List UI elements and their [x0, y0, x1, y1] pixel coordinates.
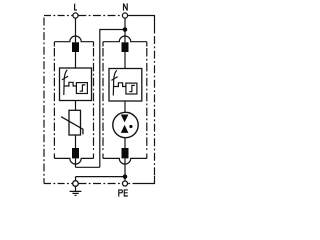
- switch lever tick N: [111, 77, 117, 81]
- wire varistor to bottom disconnector L: [75, 135, 77, 148]
- outer dash-dot enclosure bottom border segment between ground and PE: [78, 183, 122, 185]
- disconnector line L bottom with hop arc: [54, 158, 93, 164]
- junction dot PE bus: [123, 174, 128, 179]
- disconnector line L top with hop arc: [54, 36, 93, 42]
- label PE letter E: [124, 189, 128, 196]
- junction dot N top: [123, 27, 128, 32]
- wire varistor bus to riser: [76, 166, 100, 168]
- wire L terminal down: [75, 18, 77, 42]
- PE bus wire: [76, 176, 126, 178]
- switch box L: [60, 68, 92, 101]
- terminal circle ground: [73, 181, 79, 187]
- module box L left side (dash-dot): [53, 42, 55, 159]
- wire gas discharge tube to bottom disconnector N: [124, 137, 126, 148]
- wire L disconnector to switch box: [75, 52, 77, 68]
- gas discharge tube circle: [113, 112, 138, 137]
- wire riser up to N junction: [100, 30, 125, 168]
- module box L right side (dash-dot): [93, 42, 95, 159]
- gas discharge tube bottom electrode triangle: [121, 125, 129, 133]
- outer dash-dot enclosure left border: [43, 18, 45, 184]
- outer dash-dot enclosure bottom border segment left of ground: [44, 183, 73, 185]
- gas discharge tube top electrode triangle: [121, 115, 129, 123]
- terminal circle PE: [123, 181, 128, 186]
- switch lever N: [113, 70, 116, 95]
- indicator square N: [126, 83, 137, 94]
- label N: [123, 3, 128, 10]
- module box N left side (dash-dot): [102, 42, 104, 159]
- terminal circle L: [73, 13, 78, 18]
- wire N terminal down through junction: [124, 18, 126, 42]
- wire N bottom disconnector to PE junction: [124, 158, 126, 181]
- indicator step symbol L: [80, 85, 86, 91]
- switch lever tick L: [62, 76, 68, 80]
- wire N switch box to gas discharge tube: [124, 101, 126, 112]
- module box N right side (dash-dot): [146, 42, 148, 159]
- thermal disconnector solder rect N bottom: [122, 148, 129, 158]
- thermal disconnector solder rect L bottom: [72, 148, 79, 158]
- switch step link N: [114, 83, 126, 87]
- outer dash-dot enclosure bottom border segment right of PE: [128, 183, 139, 185]
- varistor diagonal with tail: [61, 117, 83, 135]
- switch step link L: [64, 82, 76, 86]
- disconnector line N top with hop arc: [103, 36, 147, 42]
- gas discharge tube gas dot: [129, 125, 132, 128]
- wire L bottom disconnector to bus: [75, 158, 77, 167]
- indicator square L: [76, 83, 87, 94]
- thermal disconnector solder rect L top: [72, 42, 79, 52]
- wire N disconnector to switch box: [124, 52, 126, 69]
- wire N terminal to right border (solid): [128, 16, 155, 34]
- indicator step symbol N: [129, 85, 135, 91]
- wire L switch box to varistor: [75, 101, 77, 111]
- outer enclosure bottom-right corner (solid): [139, 176, 155, 184]
- thermal disconnector solder rect N top: [122, 42, 129, 52]
- disconnector line N bottom with hop arc: [103, 158, 147, 164]
- ground symbol: [70, 186, 82, 195]
- outer dash-dot enclosure right border: [154, 36, 156, 176]
- varistor rectangle: [69, 110, 81, 135]
- label PE: [118, 189, 123, 196]
- outer dash-dot enclosure top border segment between L and N: [78, 15, 122, 17]
- terminal circle N: [122, 13, 127, 18]
- outer dash-dot enclosure top border segment left of L: [44, 15, 73, 17]
- switch box N: [109, 69, 142, 102]
- switch lever L: [64, 70, 67, 95]
- wire ground terminal riser: [75, 177, 77, 181]
- label L: [74, 4, 77, 11]
